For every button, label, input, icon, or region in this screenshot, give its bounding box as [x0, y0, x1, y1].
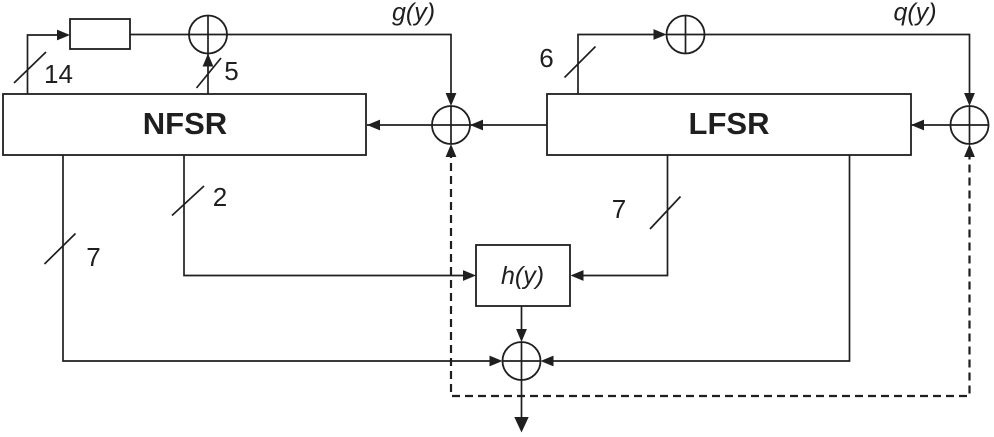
xor X5 vertical cross: [521, 342, 523, 380]
svg-text:q(y): q(y): [893, 0, 936, 27]
wire LFSR bottom right tap: [544, 155, 850, 361]
slash bus-width 7 right: [650, 197, 681, 230]
wire X3 to NFSR: [367, 124, 432, 126]
arrowhead into h(y) right: [571, 270, 584, 281]
NFSR register box: [3, 94, 366, 155]
arrowhead keystream output: [514, 417, 528, 433]
xor X3 vertical cross: [450, 106, 452, 144]
wire keystream output: [521, 380, 523, 418]
slash bus-width 14: [14, 52, 46, 83]
xor X1 circle: [189, 16, 227, 54]
wire X4 to LFSR: [911, 124, 951, 126]
svg-text:5: 5: [224, 56, 238, 86]
arrowhead into XOR X5 left: [490, 356, 503, 367]
svg-text:NFSR: NFSR: [143, 106, 227, 141]
arrowhead into XOR X3 top: [446, 93, 457, 106]
h(y) filter box: [476, 245, 570, 306]
xor X4 vertical cross: [969, 106, 971, 144]
svg-text:14: 14: [44, 59, 73, 89]
svg-text:6: 6: [539, 43, 553, 73]
arrowhead into XOR X1 bottom: [203, 54, 214, 67]
LFSR register box: [547, 94, 911, 155]
arrowhead dashed into XOR X4 bottom: [964, 144, 975, 157]
svg-text:h(y): h(y): [501, 262, 544, 290]
svg-text:g(y): g(y): [392, 0, 435, 27]
arrowhead into LFSR right edge: [911, 120, 924, 131]
arrowhead into XOR X5 top: [516, 329, 527, 342]
slash bus-width 2: [172, 186, 204, 216]
xor X5 circle (output): [503, 342, 541, 380]
wire h(y) to XOR X5: [521, 306, 523, 339]
xor X2 vertical cross: [685, 16, 687, 54]
slash bus-width 5: [197, 58, 222, 88]
wire q(y) rail: [667, 35, 970, 104]
arrowhead dashed into XOR X3 bottom: [446, 144, 457, 157]
arrowhead into XOR X5 right: [541, 356, 554, 367]
wire LFSR bottom tap 7 to h(y): [573, 155, 668, 276]
arrowhead into h(y) left: [463, 270, 476, 281]
slash bus-width 6: [565, 47, 596, 78]
xor X1 vertical cross and wire from NFSR top: [207, 16, 209, 95]
svg-text:2: 2: [213, 182, 227, 212]
arrowhead into NFSR right edge: [367, 120, 380, 131]
wire NFSR feedback tap left: [28, 35, 61, 94]
svg-text:7: 7: [86, 242, 100, 272]
xor X4 horizontal cross: [951, 124, 989, 126]
wire LFSR output to X3: [432, 124, 547, 126]
xor X4 circle (right): [951, 106, 989, 144]
xor X2 circle: [667, 16, 705, 54]
arrowhead into XOR X4 top: [964, 93, 975, 106]
svg-text:LFSR: LFSR: [689, 106, 770, 141]
wire g(y) top rail: [130, 35, 451, 104]
dashed feedback wire X3 bottom to X4 bottom: [451, 150, 970, 396]
arrowhead into XOR X3 right: [470, 120, 483, 131]
delay box: [70, 19, 130, 49]
wire LFSR top tap: [578, 35, 663, 95]
xor X5 horizontal cross: [503, 360, 541, 362]
slash bus-width 7 left: [45, 234, 76, 265]
wire NFSR bottom tap 7: [63, 155, 499, 361]
wire NFSR bottom tap 2: [184, 155, 473, 276]
xor X3 circle (middle): [432, 106, 470, 144]
svg-text:7: 7: [612, 194, 626, 224]
arrowhead into delay box: [57, 30, 70, 41]
arrowhead into XOR X2 left: [654, 29, 667, 40]
